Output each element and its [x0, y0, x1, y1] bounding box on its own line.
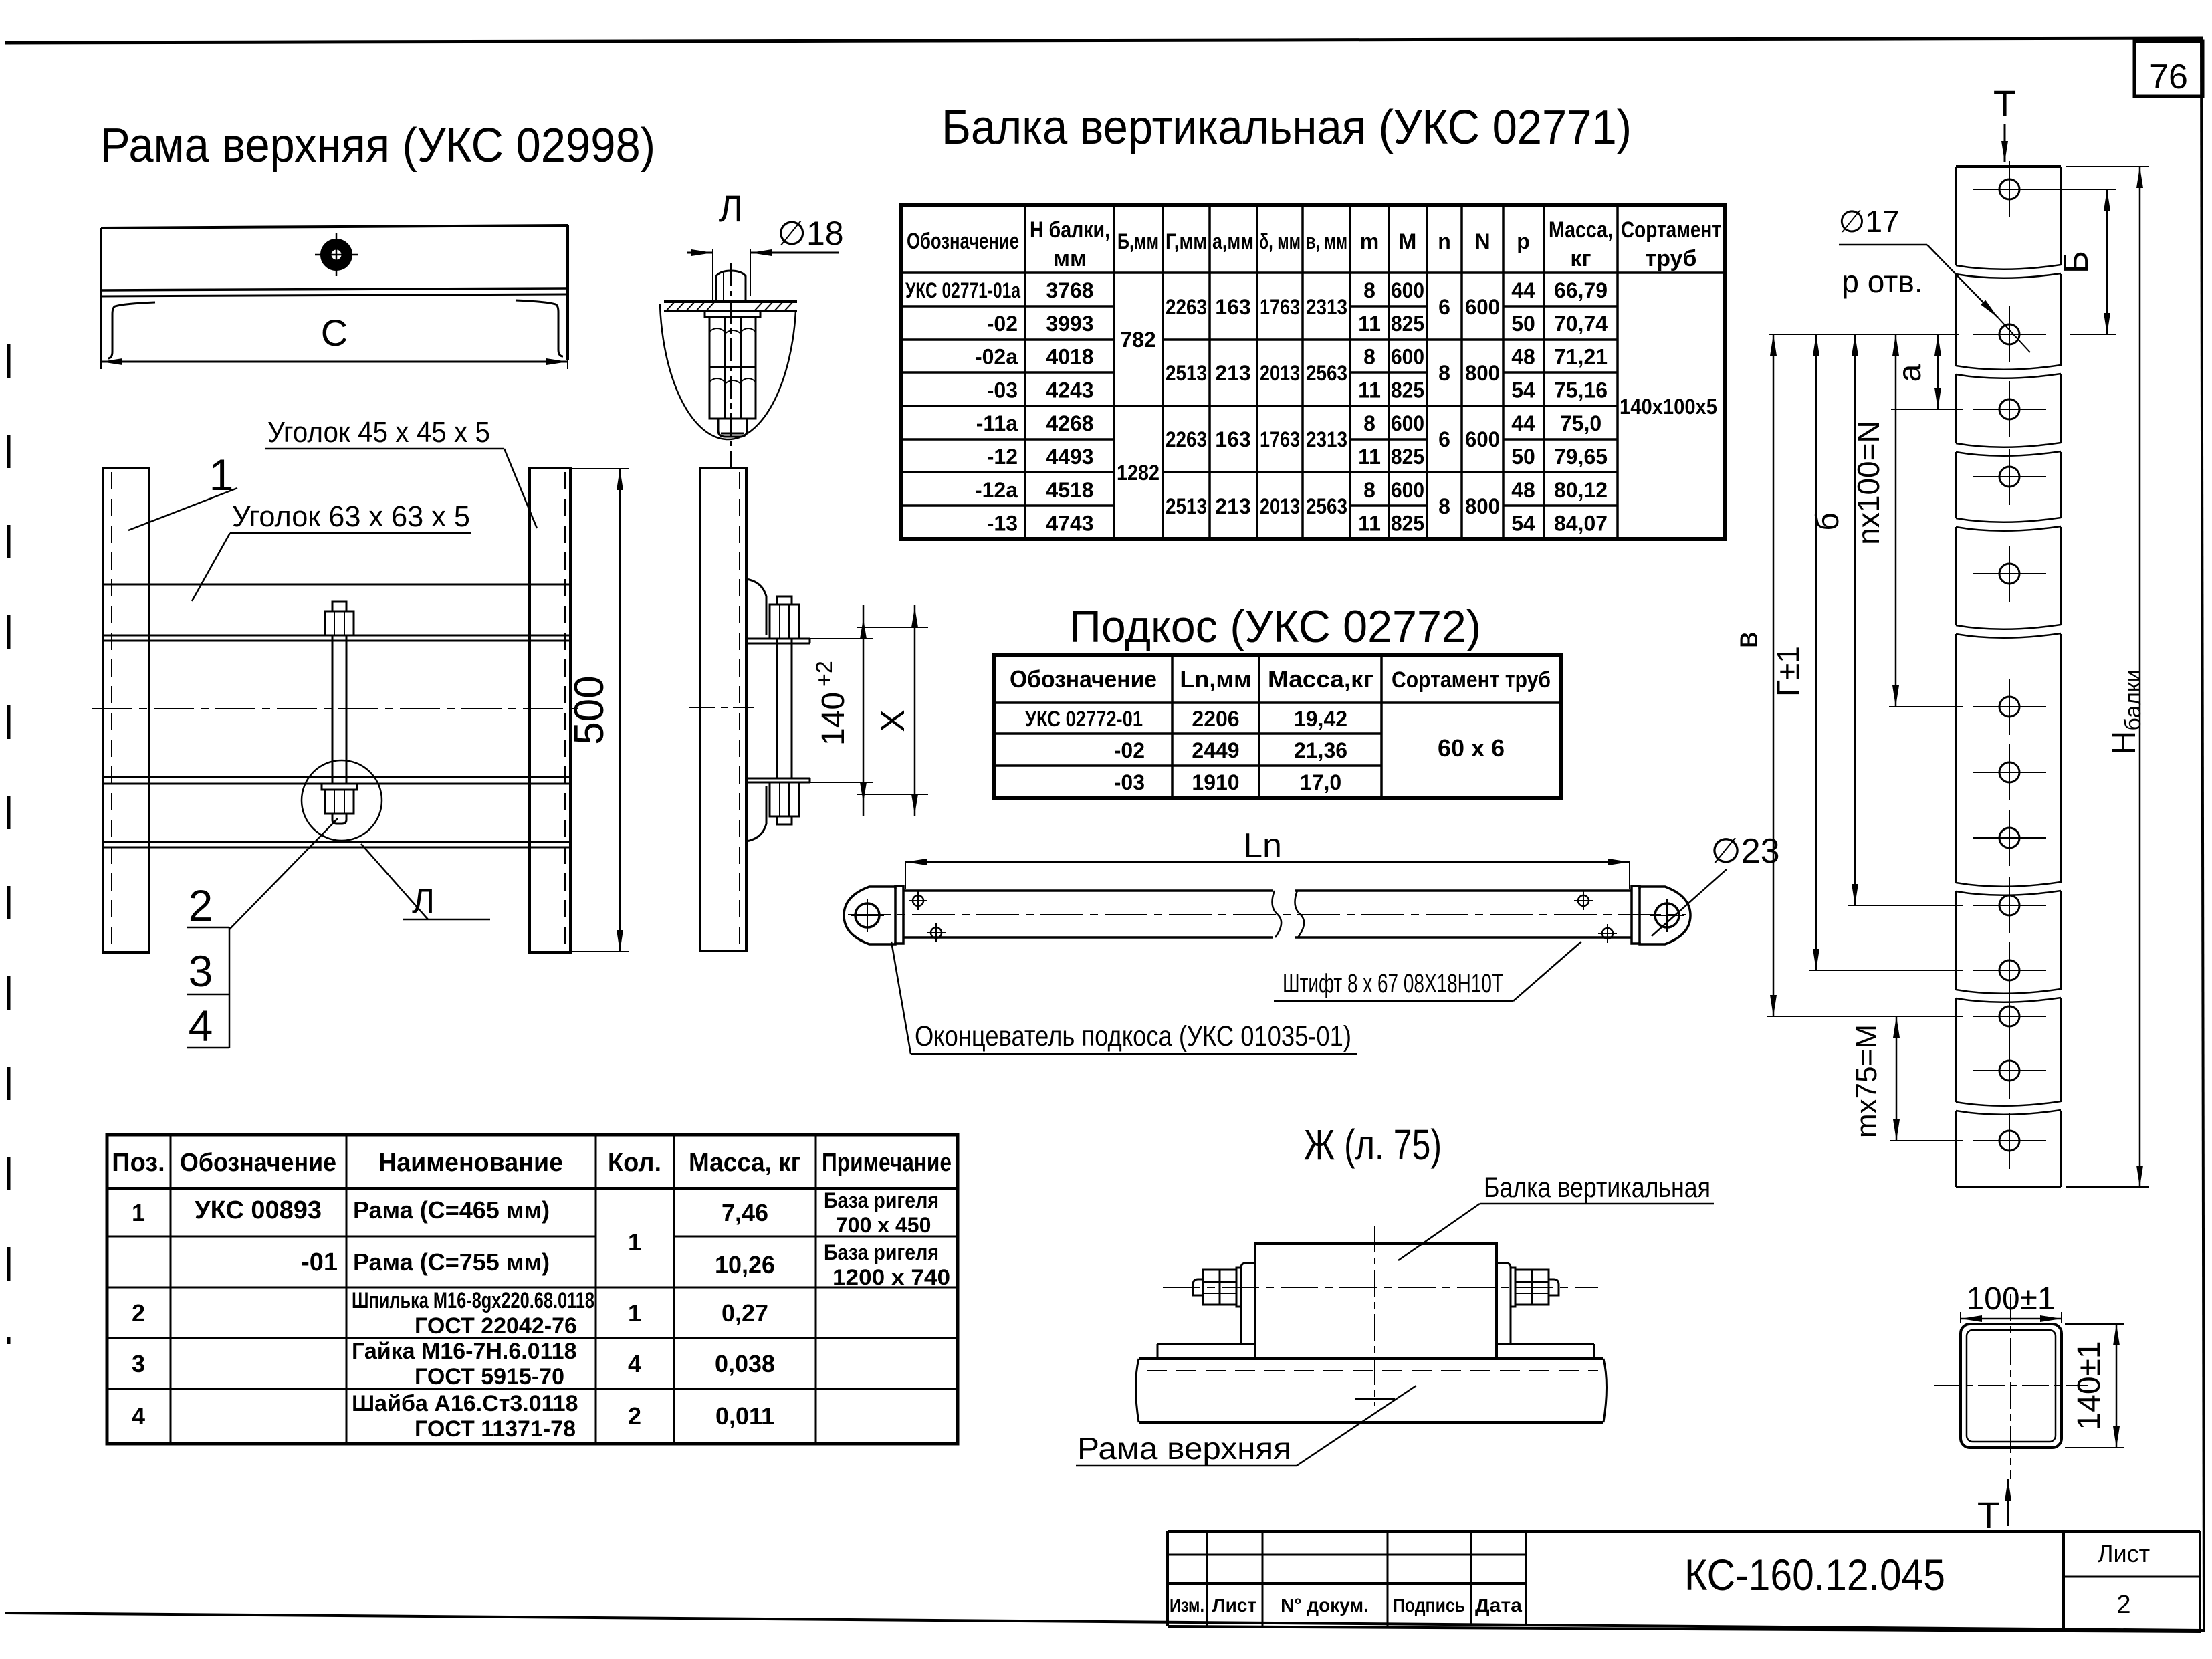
frame plan view: upper angle 45x45	[103, 584, 570, 641]
svg-text:Штифт 8 х 67 08Х18Н10Т: Штифт 8 х 67 08Х18Н10Т	[1283, 969, 1503, 998]
svg-text:ГОСТ 22042-76: ГОСТ 22042-76	[415, 1313, 577, 1339]
title Ж (л. 75)	[1304, 1121, 1442, 1169]
svg-text:70,74: 70,74	[1554, 312, 1608, 336]
label Штифт underline	[1274, 942, 1581, 1001]
dimension X	[857, 605, 928, 816]
dimension б	[1810, 334, 1963, 905]
Zh view: right clip angle	[1497, 1263, 1594, 1359]
svg-text:600: 600	[1391, 278, 1424, 302]
svg-text:2313: 2313	[1306, 427, 1347, 451]
svg-text:48: 48	[1511, 478, 1535, 502]
svg-text:Масса,: Масса,	[1549, 217, 1613, 243]
dimension C	[101, 312, 568, 369]
parts table	[107, 1135, 958, 1444]
svg-text:3: 3	[189, 946, 213, 996]
detail Л centerline	[730, 263, 732, 468]
title Балка вертикальная (УКС 02771)	[942, 101, 1632, 154]
svg-text:76: 76	[2149, 58, 2188, 96]
dimension mх75=M	[1850, 1016, 1963, 1141]
svg-text:79,65: 79,65	[1554, 445, 1608, 469]
svg-text:600: 600	[1391, 411, 1424, 435]
svg-text:Примечание: Примечание	[822, 1149, 952, 1177]
svg-text:600: 600	[1391, 345, 1424, 369]
svg-text:4518: 4518	[1046, 478, 1093, 502]
Zh view: left clip angle	[1157, 1263, 1255, 1359]
svg-text:8: 8	[1363, 278, 1375, 302]
svg-text:1282: 1282	[1117, 461, 1159, 485]
svg-text:КС-160.12.045: КС-160.12.045	[1684, 1550, 1945, 1599]
svg-text:Уголок 45 х 45 х 5: Уголок 45 х 45 х 5	[267, 416, 490, 449]
strut left eye fitting	[844, 886, 903, 944]
Zh view: right bolt nuts	[1511, 1268, 1559, 1307]
strut centerline	[848, 914, 1686, 915]
svg-text:140: 140	[816, 692, 851, 746]
dimension nx100=N	[1851, 334, 1963, 707]
svg-text:11: 11	[1358, 512, 1381, 536]
svg-text:1: 1	[209, 450, 234, 500]
svg-text:825: 825	[1391, 312, 1424, 336]
frame side view: stud and nuts	[770, 596, 799, 824]
table УКС 02771 header text	[907, 217, 1721, 271]
svg-text:Рама верхняя: Рама верхняя	[1077, 1431, 1291, 1466]
svg-text:-02: -02	[987, 312, 1018, 336]
svg-text:-01: -01	[301, 1248, 338, 1277]
label d17 p otv	[1838, 204, 2030, 352]
svg-text:7,46: 7,46	[722, 1199, 768, 1226]
svg-text:0,038: 0,038	[715, 1350, 775, 1377]
detail label Л leader	[361, 844, 490, 921]
svg-text:-12а: -12а	[975, 478, 1018, 502]
svg-text:Сортамент: Сортамент	[1621, 217, 1721, 243]
title block labels	[1170, 1595, 1522, 1616]
svg-text:4243: 4243	[1046, 378, 1093, 402]
svg-text:700 х 450: 700 х 450	[836, 1213, 931, 1237]
svg-text:2513: 2513	[1166, 361, 1207, 385]
frame plan view: left bar	[103, 468, 149, 952]
svg-text:825: 825	[1391, 378, 1424, 402]
strut tube body	[903, 891, 1632, 937]
table УКС 02771	[901, 205, 1725, 539]
page top border	[5, 38, 2203, 43]
title Подкос (УКС 02772)	[1069, 601, 1481, 652]
svg-text:3993: 3993	[1046, 312, 1093, 336]
svg-text:ГОСТ 11371-78: ГОСТ 11371-78	[415, 1416, 576, 1442]
svg-text:Л: Л	[719, 187, 744, 229]
svg-text:Подпись: Подпись	[1393, 1595, 1465, 1616]
sheet number box 76	[2134, 41, 2203, 96]
svg-text:6: 6	[1438, 427, 1450, 451]
frame plan view: right bar	[530, 468, 570, 952]
dimension 140+2	[806, 605, 873, 816]
detail Л bolt head	[716, 271, 746, 302]
page right border	[2201, 38, 2204, 1632]
svg-text:600: 600	[1465, 295, 1500, 319]
svg-text:2449: 2449	[1192, 738, 1239, 762]
svg-text:База ригеля: База ригеля	[824, 1240, 939, 1264]
svg-text:71,21: 71,21	[1554, 345, 1608, 369]
svg-text:Шайба А16.Ст3.0118: Шайба А16.Ст3.0118	[352, 1391, 578, 1416]
svg-text:Т: Т	[1977, 1494, 2000, 1536]
dimension Б	[2033, 189, 2116, 334]
svg-text:Рама (С=755 мм): Рама (С=755 мм)	[353, 1248, 550, 1276]
svg-text:Кол.: Кол.	[608, 1149, 661, 1177]
svg-text:3: 3	[132, 1350, 145, 1377]
Zh view: centerlines	[1163, 1226, 1598, 1406]
svg-text:Балка вертикальная: Балка вертикальная	[1484, 1172, 1710, 1204]
svg-text:-02: -02	[1114, 738, 1145, 762]
vertical beam outline	[1956, 167, 2061, 1187]
svg-text:Подкос (УКС 02772): Подкос (УКС 02772)	[1069, 601, 1481, 652]
Zh view: vertical beam block	[1255, 1244, 1497, 1359]
svg-text:N: N	[1474, 229, 1490, 253]
frame plan view: lower angle 63x63	[103, 777, 570, 847]
frame side view: bar	[689, 468, 754, 951]
svg-text:4493: 4493	[1046, 445, 1093, 469]
svg-text:Рама (С=465 мм): Рама (С=465 мм)	[353, 1196, 550, 1224]
frame plan view: stud rod	[332, 635, 346, 784]
label Штифт	[1283, 969, 1503, 998]
svg-text:Масса, кг: Масса, кг	[689, 1149, 801, 1177]
detail Л nuts	[709, 317, 756, 419]
svg-text:8: 8	[1363, 345, 1375, 369]
detail circle Л	[302, 760, 382, 841]
svg-text:-12: -12	[987, 445, 1018, 469]
detail Л break-line arc	[660, 304, 796, 439]
svg-text:Обозначение: Обозначение	[180, 1149, 336, 1177]
svg-text:54: 54	[1511, 378, 1535, 402]
svg-text:84,07: 84,07	[1554, 512, 1608, 536]
svg-text:∅18: ∅18	[777, 215, 843, 252]
svg-text:1910: 1910	[1192, 770, 1239, 794]
svg-text:Сортамент труб: Сортамент труб	[1392, 667, 1551, 693]
svg-text:4268: 4268	[1046, 411, 1093, 435]
dimension d18	[687, 215, 844, 300]
svg-text:Оконцеватель подкоса (УКС 0103: Оконцеватель подкоса (УКС 01035-01)	[915, 1020, 1351, 1053]
svg-text:8: 8	[1438, 361, 1450, 385]
svg-text:3768: 3768	[1046, 278, 1093, 302]
svg-text:N° докум.: N° докум.	[1281, 1595, 1369, 1616]
svg-text:Дата: Дата	[1475, 1595, 1522, 1616]
svg-text:n: n	[1438, 229, 1451, 253]
svg-text:Поз.: Поз.	[112, 1149, 164, 1177]
table УКС 02771 data	[905, 278, 1717, 536]
title block frame	[1168, 1531, 2200, 1633]
svg-text:кг: кг	[1570, 246, 1591, 271]
svg-text:δ, мм: δ, мм	[1259, 229, 1301, 253]
svg-text:а: а	[1892, 364, 1928, 382]
vertical beam holes	[1973, 161, 2046, 1169]
svg-text:11: 11	[1358, 312, 1381, 336]
svg-text:8: 8	[1363, 478, 1375, 502]
svg-text:р: р	[1517, 229, 1530, 253]
svg-text:500: 500	[566, 675, 613, 744]
svg-text:Г±1: Г±1	[1771, 646, 1805, 697]
svg-text:213: 213	[1215, 494, 1250, 518]
svg-text:2263: 2263	[1166, 295, 1207, 319]
svg-text:75,0: 75,0	[1560, 411, 1601, 435]
dimension в	[1729, 334, 1963, 1016]
Zh view: upper frame band	[1136, 1359, 1607, 1422]
svg-text:mх75=М: mх75=М	[1850, 1024, 1883, 1138]
common extension line at hole2	[1769, 334, 1959, 335]
svg-text:М: М	[1399, 229, 1417, 253]
label Рама верхняя	[1076, 1386, 1416, 1466]
svg-text:800: 800	[1465, 494, 1500, 518]
svg-text:-13: -13	[987, 512, 1018, 536]
svg-text:Б,мм: Б,мм	[1117, 229, 1159, 253]
svg-text:Обозначение: Обозначение	[1010, 665, 1157, 693]
svg-text:4743: 4743	[1046, 512, 1093, 536]
title Рама верхняя (УКС 02998)	[100, 119, 655, 173]
svg-text:nх100=N: nх100=N	[1851, 421, 1886, 544]
svg-text:10,26: 10,26	[715, 1251, 775, 1279]
svg-text:УКС 02771-01а: УКС 02771-01а	[905, 278, 1020, 302]
svg-text:а,мм: а,мм	[1212, 229, 1254, 253]
svg-text:1: 1	[132, 1199, 145, 1226]
dimension 100±1	[1961, 1281, 2062, 1323]
svg-text:48: 48	[1511, 345, 1535, 369]
bolt hole in channel beam	[315, 233, 358, 276]
label Оконцеватель подкоса	[891, 942, 1357, 1054]
dimension d23	[1652, 832, 1780, 936]
svg-text:-03: -03	[987, 378, 1018, 402]
label Уголок 45x45x5	[265, 416, 537, 528]
svg-text:2206: 2206	[1192, 707, 1239, 731]
label Уголок 63x63x5	[192, 500, 471, 601]
svg-text:в: в	[1729, 631, 1765, 649]
parts table text	[112, 1149, 952, 1442]
svg-text:600: 600	[1465, 427, 1500, 451]
svg-text:УКС 02772-01: УКС 02772-01	[1025, 707, 1143, 731]
Zh view: left bolt nuts	[1193, 1268, 1241, 1307]
svg-text:1763: 1763	[1260, 427, 1300, 451]
svg-text:600: 600	[1391, 478, 1424, 502]
dimension Г±1	[1771, 334, 1963, 970]
svg-text:19,42: 19,42	[1294, 707, 1347, 731]
section mark T top	[1993, 82, 2016, 162]
detail Л washer	[705, 311, 760, 317]
svg-text:2: 2	[628, 1402, 641, 1430]
svg-text:2013: 2013	[1260, 361, 1300, 385]
svg-text:+2: +2	[812, 661, 837, 687]
svg-text:213: 213	[1215, 361, 1250, 385]
svg-text:11: 11	[1358, 445, 1381, 469]
position leaders 2 3 4	[187, 818, 338, 1050]
svg-text:4: 4	[628, 1350, 641, 1377]
section mark T bottom with arrow	[1977, 1479, 2008, 1536]
svg-text:0,27: 0,27	[722, 1299, 768, 1327]
svg-text:50: 50	[1511, 445, 1535, 469]
strut Ln dimension	[905, 826, 1630, 889]
detail Л label	[719, 187, 744, 229]
svg-text:21,36: 21,36	[1294, 738, 1347, 762]
dimension Н балки	[2066, 167, 2149, 1187]
svg-text:4018: 4018	[1046, 345, 1093, 369]
svg-text:0,011: 0,011	[715, 1402, 774, 1430]
frame channel beam top view	[101, 225, 568, 360]
svg-text:2013: 2013	[1260, 494, 1300, 518]
position leader 1	[128, 450, 237, 530]
svg-text:Обозначение: Обозначение	[907, 229, 1019, 254]
svg-text:Т: Т	[1993, 82, 2016, 124]
svg-text:Лист: Лист	[2098, 1540, 2150, 1567]
svg-text:50: 50	[1511, 312, 1535, 336]
svg-text:4: 4	[132, 1402, 145, 1430]
svg-text:60 х 6: 60 х 6	[1438, 734, 1505, 762]
svg-text:66,79: 66,79	[1554, 278, 1608, 302]
svg-text:75,16: 75,16	[1554, 378, 1608, 402]
svg-text:1763: 1763	[1260, 295, 1300, 319]
svg-text:∅17: ∅17	[1838, 204, 1899, 239]
svg-text:44: 44	[1511, 411, 1535, 435]
svg-text:Гайка М16-7Н.6.0118: Гайка М16-7Н.6.0118	[352, 1339, 577, 1364]
svg-text:6: 6	[1438, 295, 1450, 319]
svg-text:Рама верхняя (УКС 02998): Рама верхняя (УКС 02998)	[100, 119, 655, 173]
svg-text:Масса,кг: Масса,кг	[1268, 665, 1373, 693]
svg-text:∅23: ∅23	[1710, 832, 1779, 871]
label Балка вертикальная	[1398, 1172, 1714, 1260]
svg-text:-02а: -02а	[975, 345, 1018, 369]
svg-text:163: 163	[1215, 427, 1250, 451]
frame plan view: center line	[92, 708, 580, 709]
svg-text:8: 8	[1363, 411, 1375, 435]
svg-text:1200 х 740: 1200 х 740	[833, 1265, 950, 1289]
svg-text:17,0: 17,0	[1300, 770, 1341, 794]
svg-text:Изм.: Изм.	[1170, 1595, 1204, 1616]
svg-text:мм: мм	[1053, 246, 1087, 271]
svg-text:Шпилька М16-8gх220.68.0118: Шпилька М16-8gх220.68.0118	[352, 1288, 594, 1313]
svg-text:Б: Б	[2057, 251, 2096, 273]
svg-text:Наименование: Наименование	[378, 1149, 563, 1177]
svg-text:1: 1	[628, 1228, 641, 1256]
svg-text:1: 1	[628, 1299, 641, 1327]
svg-text:-11а: -11а	[976, 411, 1018, 435]
svg-text:44: 44	[1511, 278, 1535, 302]
svg-text:825: 825	[1391, 445, 1424, 469]
svg-text:УКС 00893: УКС 00893	[195, 1196, 322, 1224]
svg-text:163: 163	[1215, 295, 1250, 319]
svg-text:140х100х5: 140х100х5	[1620, 395, 1717, 419]
strut right eye fitting	[1632, 886, 1690, 944]
svg-text:800: 800	[1465, 361, 1500, 385]
document number КС-160.12.045	[1684, 1550, 1945, 1599]
svg-text:54: 54	[1511, 512, 1535, 536]
svg-text:4: 4	[189, 1001, 213, 1050]
svg-text:2563: 2563	[1306, 494, 1347, 518]
svg-text:С: С	[321, 312, 348, 354]
svg-text:2: 2	[189, 881, 213, 930]
svg-text:Уголок 63 х 63 х 5: Уголок 63 х 63 х 5	[232, 500, 470, 533]
svg-text:2513: 2513	[1166, 494, 1207, 518]
dimension 500	[566, 469, 629, 952]
dimension 140±1	[2065, 1324, 2124, 1448]
vertical beam break lines	[1954, 265, 2063, 1115]
frame side view: upper bracket	[746, 579, 810, 643]
svg-text:Ln,мм: Ln,мм	[1180, 665, 1251, 693]
svg-text:2263: 2263	[1166, 427, 1207, 451]
frame plan view: stud upper end	[325, 602, 354, 635]
svg-text:База ригеля: База ригеля	[824, 1188, 939, 1212]
svg-text:Ж (л. 75): Ж (л. 75)	[1304, 1121, 1442, 1169]
svg-text:825: 825	[1391, 512, 1424, 536]
svg-text:Ln: Ln	[1243, 826, 1282, 865]
strut pins	[909, 891, 1617, 943]
svg-text:труб: труб	[1646, 246, 1697, 271]
svg-text:m: m	[1360, 229, 1379, 253]
svg-text:2: 2	[2116, 1591, 2130, 1619]
svg-text:8: 8	[1438, 494, 1450, 518]
page left dashed border	[7, 344, 11, 1344]
detail Л stud end	[718, 419, 747, 437]
svg-text:2313: 2313	[1306, 295, 1347, 319]
svg-text:Н балки,: Н балки,	[1030, 217, 1110, 243]
svg-text:782: 782	[1120, 328, 1155, 352]
frame side view: lower bracket	[746, 778, 810, 841]
frame plan view: stud lower nut	[322, 784, 357, 824]
dimension а	[1891, 334, 1963, 409]
svg-text:80,12: 80,12	[1554, 478, 1608, 502]
svg-text:ГОСТ 5915-70: ГОСТ 5915-70	[415, 1364, 564, 1390]
svg-text:-03: -03	[1114, 770, 1145, 794]
svg-text:Г,мм: Г,мм	[1166, 229, 1207, 253]
tube cross-section	[1934, 1294, 2088, 1479]
svg-text:11: 11	[1358, 378, 1381, 402]
svg-text:р отв.: р отв.	[1842, 264, 1922, 299]
svg-text:2563: 2563	[1306, 361, 1347, 385]
svg-text:100±1: 100±1	[1966, 1281, 2055, 1317]
svg-text:2: 2	[132, 1299, 145, 1327]
sheet cell	[2098, 1540, 2150, 1619]
svg-text:Х: Х	[874, 709, 911, 732]
page bottom border	[5, 1613, 2203, 1630]
svg-text:Лист: Лист	[1212, 1595, 1256, 1616]
detail Л hatched plate	[664, 302, 797, 311]
svg-text:140±1: 140±1	[2072, 1341, 2107, 1430]
svg-text:в, мм: в, мм	[1306, 229, 1347, 253]
svg-text:Балка вертикальная (УКС 02771): Балка вертикальная (УКС 02771)	[942, 101, 1632, 154]
table УКС 02772	[994, 655, 1561, 798]
